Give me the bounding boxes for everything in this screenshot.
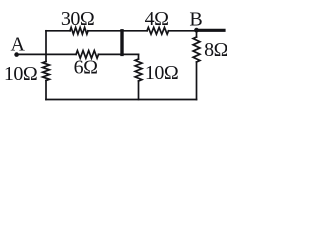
wire from node A (17, 53, 76, 55)
resistor R3 6Ω zigzag (76, 51, 99, 59)
wire top rail left segment (46, 30, 70, 32)
svg-text:A: A (10, 34, 25, 56)
svg-text:10Ω: 10Ω (4, 63, 37, 85)
wire left vertical upper (45, 31, 47, 62)
wire terminal B thick stub (197, 29, 225, 32)
svg-text:6Ω: 6Ω (74, 57, 98, 79)
wire top rail middle segment (88, 30, 147, 32)
wire top rail right segment to node B (169, 30, 197, 32)
resistor R2 4Ω zigzag (147, 27, 169, 34)
resistor R4 10Ω left zigzag (43, 62, 50, 81)
resistor R6 8Ω zigzag (193, 37, 200, 62)
svg-text:10Ω: 10Ω (145, 62, 178, 84)
svg-text:30Ω: 30Ω (61, 8, 94, 30)
wire right vertical upper (196, 31, 198, 37)
node B dot (194, 28, 199, 33)
wire thick junction bar (120, 31, 123, 55)
wire middle vertical lower (138, 81, 140, 100)
resistor R1 30Ω zigzag (70, 27, 88, 34)
node A dot (14, 52, 19, 57)
svg-text:4Ω: 4Ω (145, 8, 169, 30)
svg-text:B: B (189, 9, 202, 31)
svg-text:8Ω: 8Ω (204, 39, 227, 61)
resistor R5 10Ω middle zigzag (135, 59, 142, 81)
wire middle rail right segment (99, 53, 139, 55)
wire right vertical lower (196, 62, 198, 100)
wire bottom rail (46, 99, 197, 101)
wire middle vertical upper (138, 54, 140, 59)
wire left vertical lower (45, 81, 47, 100)
